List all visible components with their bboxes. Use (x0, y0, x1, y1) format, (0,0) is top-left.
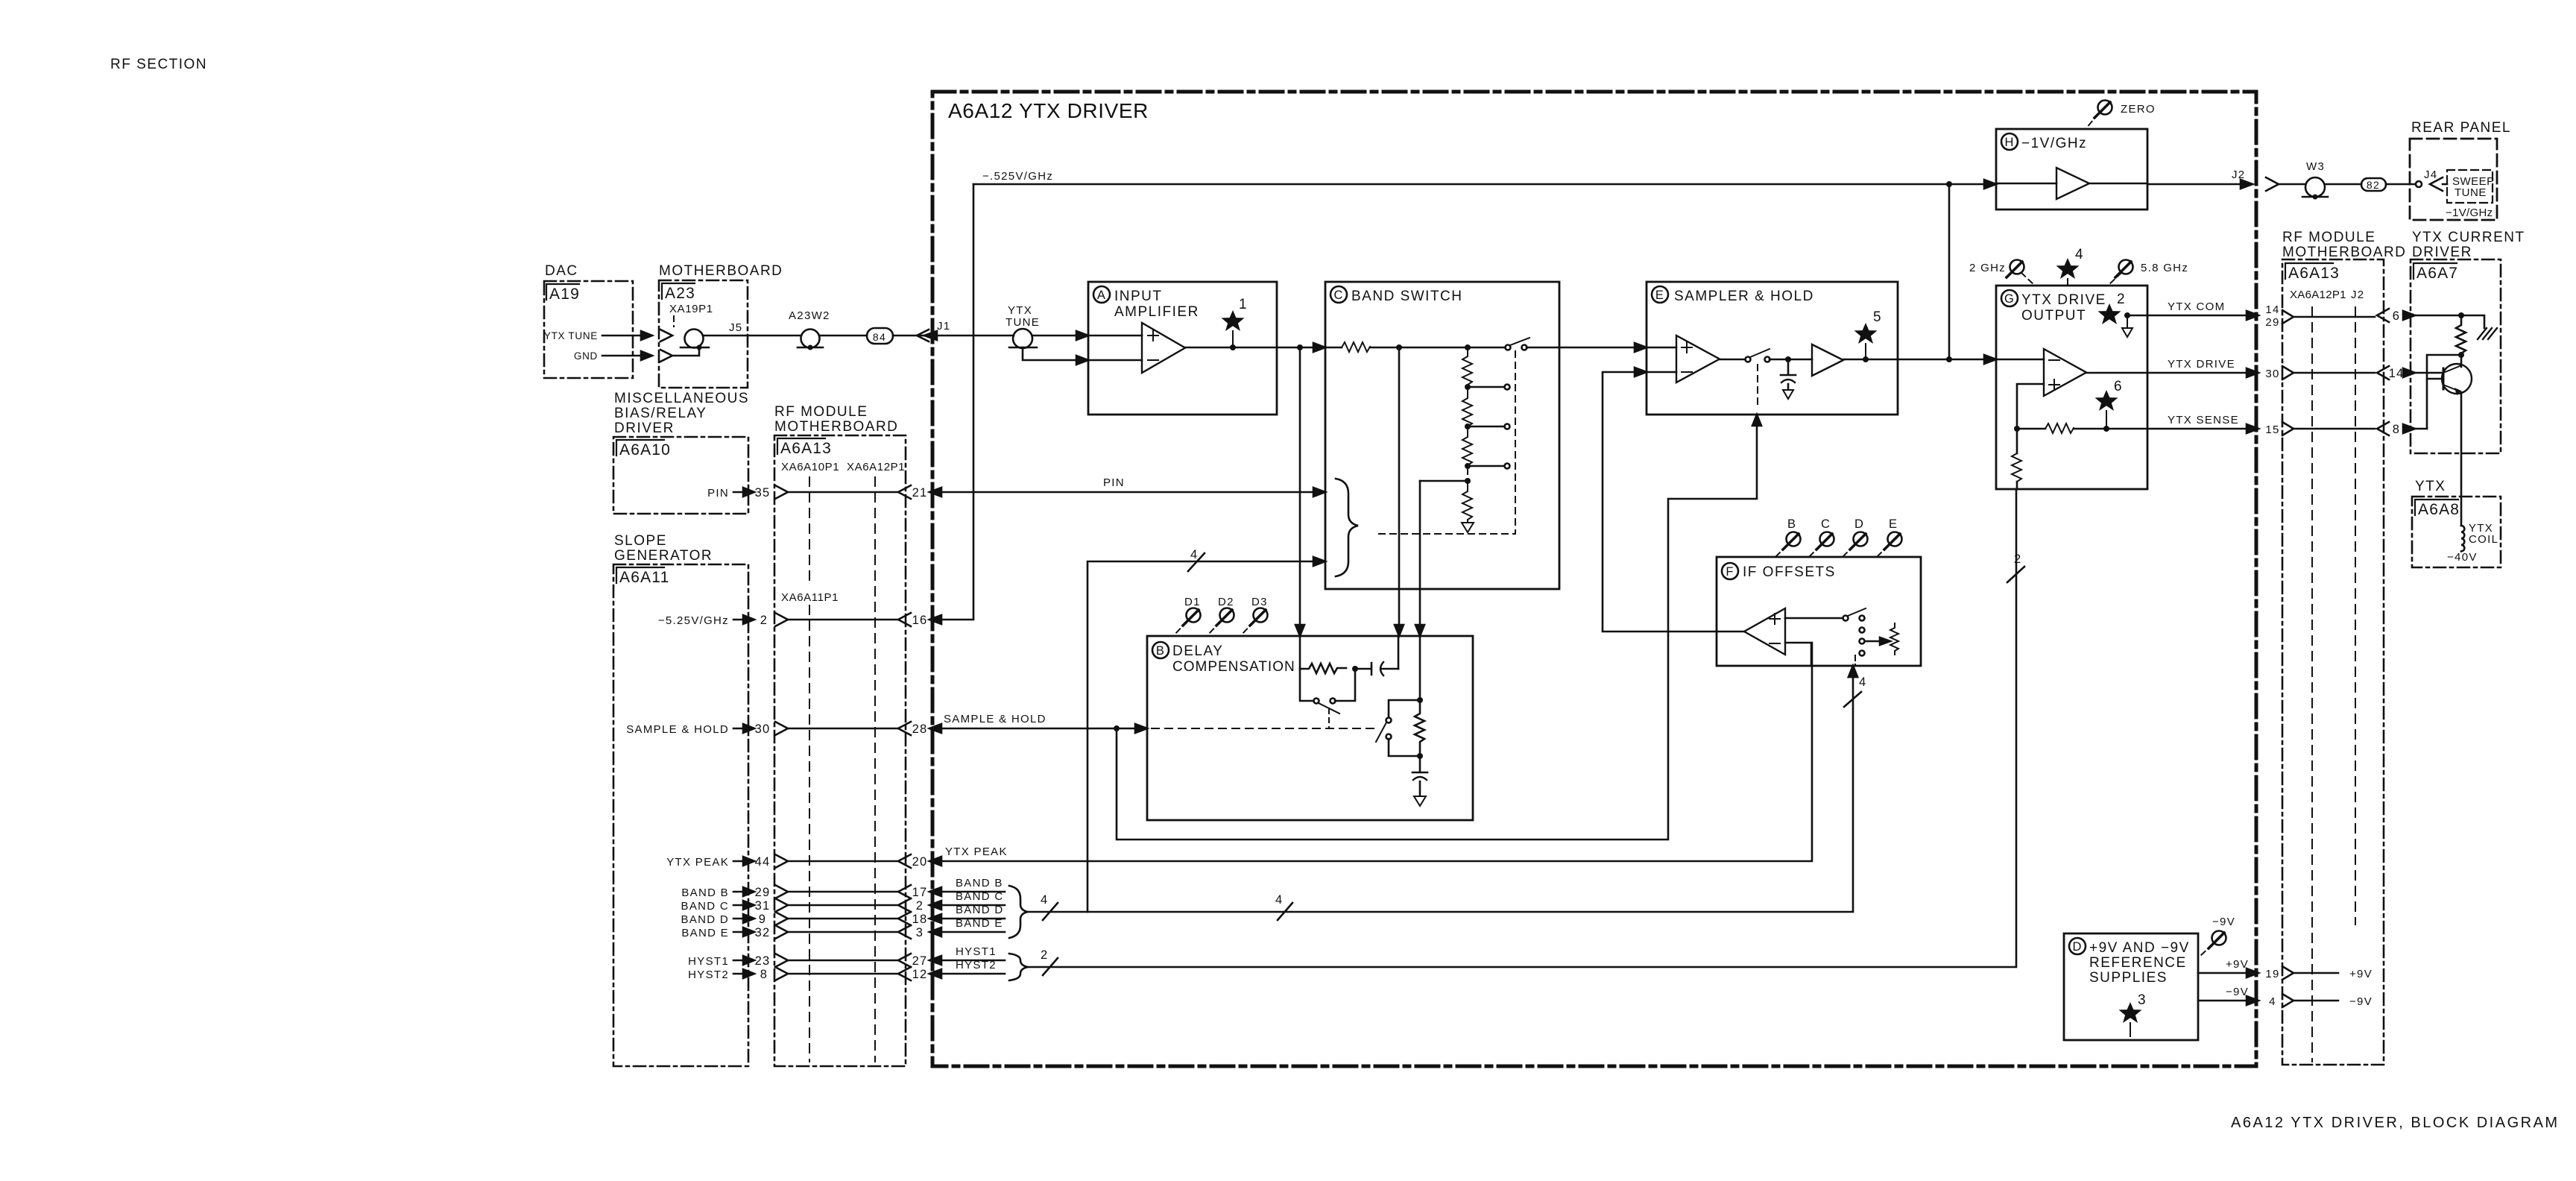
wire PIN to band switch (932, 491, 1319, 494)
wire -9V output (2198, 1000, 2253, 1002)
A6A12 YTX DRIVER outer dashed border (932, 92, 2256, 1066)
hyst bus wire (2) (1028, 489, 2016, 967)
svg-text:3: 3 (2138, 992, 2147, 1008)
svg-text:A6A7: A6A7 (2416, 265, 2458, 282)
svg-text:+9V: +9V (2349, 968, 2373, 980)
wire E output to G input (1898, 359, 1990, 361)
svg-text:YTX: YTX (2415, 479, 2446, 494)
wire +9V output (2198, 972, 2253, 974)
svg-text:A6A13: A6A13 (780, 440, 832, 457)
svg-text:12: 12 (912, 968, 928, 981)
svg-text:4: 4 (1275, 893, 1283, 907)
svg-text:DELAY: DELAY (1172, 643, 1223, 659)
switch S-B1 shunt (1300, 669, 1313, 701)
svg-text:C: C (1333, 289, 1343, 302)
svg-text:COIL: COIL (2469, 533, 2498, 546)
svg-text:YTX COM: YTX COM (2168, 300, 2225, 313)
junction R-C mid node (1352, 666, 1358, 672)
wire to chassis ground (2461, 315, 2484, 328)
svg-text:HYST2: HYST2 (688, 969, 729, 981)
svg-text:D: D (1854, 517, 1864, 531)
svg-text:YTX PEAK: YTX PEAK (666, 856, 729, 869)
svg-text:A6A12 YTX DRIVER, BLOCK DIAGRA: A6A12 YTX DRIVER, BLOCK DIAGRAM (2231, 1115, 2560, 1131)
ground open arrow (hold cap) (1783, 390, 1793, 399)
screw adjust ZERO (2094, 101, 2112, 119)
svg-text:+9V AND −9V: +9V AND −9V (2089, 940, 2190, 956)
ytx current driver A6A7 box (2411, 259, 2501, 453)
svg-text:MOTHERBOARD: MOTHERBOARD (659, 263, 783, 279)
svg-text:DRIVER: DRIVER (614, 421, 675, 436)
svg-text:6: 6 (2393, 309, 2400, 323)
op-amp U-G (2044, 349, 2086, 396)
svg-text:27: 27 (912, 954, 928, 968)
hyst bus brace (1009, 954, 1028, 980)
svg-text:HYST2: HYST2 (956, 959, 997, 971)
wire cap to C riser (1398, 636, 1400, 669)
svg-text:YTX DRIVE: YTX DRIVE (2168, 358, 2235, 371)
svg-text:−5.25V/GHz: −5.25V/GHz (658, 614, 729, 627)
svg-text:MISCELLANEOUS: MISCELLANEOUS (614, 391, 749, 406)
switch S-C1 on main line (1506, 345, 1511, 350)
svg-text:4: 4 (1041, 893, 1048, 907)
svg-text:30: 30 (2265, 368, 2279, 380)
resistor R-C4 (1462, 426, 1472, 474)
svg-text:82: 82 (2367, 179, 2380, 191)
svg-text:A6A10: A6A10 (619, 441, 671, 459)
wire riser band switch to delay compensation (1398, 347, 1401, 630)
resistor R-C1 (1342, 342, 1370, 352)
svg-text:YTX PEAK: YTX PEAK (945, 845, 1008, 858)
wire sense tap from pin 8 (2427, 355, 2461, 429)
svg-text:IF OFFSETS: IF OFFSETS (1743, 564, 1836, 580)
svg-text:18: 18 (912, 913, 928, 926)
star 3 (2119, 1002, 2142, 1023)
node ladder tap 1 (1465, 384, 1471, 390)
svg-text:3: 3 (916, 926, 924, 939)
svg-text:BAND D: BAND D (681, 913, 729, 926)
wire F minus feedback to YTX PEAK (1785, 643, 1811, 666)
svg-text:−1V/GHz: −1V/GHz (2021, 136, 2087, 151)
svg-text:W3: W3 (2306, 160, 2325, 173)
junction ladder top (1465, 344, 1471, 350)
wire YTX DRIVE output (2086, 372, 2253, 374)
svg-text:A6A11: A6A11 (619, 569, 670, 586)
wire S&H branch to sampler switch control (1117, 422, 1757, 840)
svg-text:14: 14 (2265, 303, 2279, 316)
arrow band bus into F (1849, 666, 1857, 677)
svg-text:DAC: DAC (545, 263, 578, 279)
block H -1V/GHz box (1996, 129, 2147, 210)
junction S&H branch (1114, 725, 1120, 731)
connector XA6A12P1 dashed line (left) (874, 477, 876, 1062)
op-amp U-A (1142, 323, 1185, 373)
svg-text:RF MODULE: RF MODULE (774, 404, 868, 420)
svg-text:BAND C: BAND C (956, 890, 1003, 903)
resistor R-A7 (2456, 315, 2466, 353)
junction amp output to delay comp riser (1297, 344, 1303, 350)
svg-text:D: D (2072, 940, 2082, 954)
connector XA6A10P1 dashed line (809, 477, 810, 1062)
junction hold cap node (1785, 356, 1791, 362)
pin chevron into A23 (YTX TUNE) (660, 330, 672, 341)
wire B node from A riser (1299, 636, 1301, 669)
svg-text:5: 5 (1873, 309, 1882, 325)
wire riser A-out to delay compensation (1299, 347, 1301, 630)
svg-text:REAR PANEL: REAR PANEL (2411, 120, 2511, 136)
dashed S&H control inside B (1152, 728, 1377, 729)
svg-text:84: 84 (873, 331, 886, 343)
bus width slash 2 (left) (1043, 958, 1058, 975)
rf module motherboard A6A13 box (left) (774, 435, 906, 1066)
svg-text:GND: GND (574, 350, 598, 362)
svg-text:4: 4 (2269, 995, 2276, 1008)
wire YTX PEAK to IF offsets feedback (932, 643, 1812, 861)
svg-text:J4: J4 (2424, 169, 2437, 181)
connector XA6A12P1 dashed line (right) (2311, 307, 2313, 1062)
bus width slash 4 (left) (1043, 903, 1058, 920)
block D +9V AND -9V REFERENCE SUPPLIES box (2064, 933, 2198, 1040)
svg-text:B: B (1156, 644, 1165, 658)
wire 84 oval to J1 (893, 335, 1014, 337)
svg-text:YTX CURRENT: YTX CURRENT (2412, 230, 2525, 245)
star 5 (1854, 323, 1878, 344)
svg-text:2 GHz: 2 GHz (1969, 262, 2006, 274)
svg-text:−9V: −9V (2226, 986, 2249, 998)
svg-text:16: 16 (912, 614, 928, 627)
svg-text:8: 8 (2393, 423, 2400, 436)
svg-text:5.8 GHz: 5.8 GHz (2141, 262, 2188, 274)
junction delay network top (1417, 697, 1423, 703)
svg-text:2: 2 (1041, 948, 1048, 962)
wire A23W2 to cable 84 (820, 335, 868, 337)
wire H output to J2 (2147, 183, 2253, 186)
connector J4 open circle (2416, 181, 2422, 187)
wire YTX TUNE shield to amp minus input (1023, 347, 1076, 360)
ytx A6A8 box (2412, 497, 2501, 567)
resistor R-C5 (1462, 481, 1472, 529)
wire selector to potentiometer (1865, 640, 1883, 643)
svg-text:SAMPLE & HOLD: SAMPLE & HOLD (626, 723, 729, 736)
svg-text:A23: A23 (665, 285, 695, 302)
transistor Q1 (2442, 364, 2472, 394)
svg-text:BAND SWITCH: BAND SWITCH (1351, 289, 1463, 304)
svg-text:OUTPUT: OUTPUT (2021, 308, 2086, 324)
capacitor C-B1 (1355, 663, 1371, 675)
svg-text:C: C (1821, 517, 1831, 531)
svg-text:−9V: −9V (2349, 995, 2373, 1008)
svg-text:MOTHERBOARD: MOTHERBOARD (774, 419, 898, 435)
wire band switch main line (1325, 347, 1342, 349)
svg-text:BAND B: BAND B (956, 877, 1003, 889)
svg-text:D3: D3 (1251, 596, 1268, 608)
node ladder tap 2 (1465, 423, 1471, 429)
resistor R-G2 feedback (2016, 429, 2018, 453)
capacitor C-E1 hold (1781, 359, 1796, 375)
switch S-F selector (1843, 616, 1849, 621)
svg-text:BIAS/RELAY: BIAS/RELAY (614, 406, 707, 421)
chassis ground hatch (2478, 328, 2497, 339)
svg-text:A6A12 YTX DRIVER: A6A12 YTX DRIVER (948, 99, 1149, 122)
resistor R-B2 (1415, 700, 1424, 754)
wiper dashed control line (1374, 351, 1515, 534)
amp U-H (2056, 168, 2089, 199)
switch S-E1 sample switch (1720, 359, 1745, 361)
junction collector pull node (2458, 312, 2464, 318)
connector J2 chevrons at border (2241, 180, 2253, 189)
junction main line to B riser (1396, 344, 1402, 350)
dashed selector control (1854, 655, 1856, 666)
node ladder to delay comp feed (1465, 478, 1471, 484)
svg-text:GENERATOR: GENERATOR (614, 548, 713, 564)
svg-text:COMPENSATION: COMPENSATION (1172, 659, 1295, 675)
svg-text:44: 44 (755, 855, 771, 869)
svg-text:AMPLIFIER: AMPLIFIER (1114, 304, 1199, 320)
svg-text:28: 28 (912, 722, 928, 736)
svg-text:INPUT: INPUT (1114, 289, 1163, 304)
svg-text:B: B (1787, 517, 1796, 531)
svg-text:A: A (1097, 289, 1106, 302)
svg-text:4: 4 (1190, 548, 1198, 561)
junction YTX COM node (2124, 312, 2130, 318)
svg-text:15: 15 (2265, 423, 2279, 436)
wire SAMPLE & HOLD into delay compensation (932, 728, 1136, 730)
block B DELAY COMPENSATION box (1147, 636, 1473, 820)
svg-text:DRIVER: DRIVER (2412, 245, 2472, 260)
svg-text:MOTHERBOARD: MOTHERBOARD (2282, 245, 2406, 260)
wire 4-band line to band switch brace (1087, 561, 1313, 912)
svg-text:F: F (1726, 565, 1734, 579)
block E SAMPLER & HOLD box (1647, 282, 1898, 415)
ground open arrow (YTX COM) (2127, 315, 2128, 328)
rear panel box (2410, 139, 2497, 220)
DAC A19 box (544, 281, 633, 378)
svg-text:G: G (2004, 292, 2015, 306)
svg-text:+9V: +9V (2226, 958, 2249, 971)
connector XA19P1 circle (685, 330, 704, 348)
svg-text:SAMPLE & HOLD: SAMPLE & HOLD (944, 713, 1046, 725)
svg-text:HYST1: HYST1 (956, 945, 997, 958)
cable number 82 oval (2361, 178, 2386, 191)
ground bar under XA19P1 (681, 347, 709, 349)
star 1 (1222, 310, 1245, 331)
star 2 (2098, 303, 2121, 324)
buffer amp U-E2 (1812, 344, 1843, 376)
resistor R-B1 (1300, 664, 1346, 673)
bus width slash 2 (riser to YTX drive output) (2007, 567, 2024, 582)
bias/relay driver A6A10 box (613, 437, 748, 514)
sweep tune inner dashed box (2447, 170, 2493, 203)
ground open arrow (ladder bottom) (1462, 520, 1474, 532)
wire riser to -1V/GHz input (1948, 184, 1951, 359)
slope generator A6A11 box (613, 564, 748, 1066)
svg-text:D1: D1 (1184, 596, 1201, 608)
svg-text:SLOPE: SLOPE (614, 533, 667, 549)
svg-text:6: 6 (2114, 379, 2123, 394)
svg-text:RF SECTION: RF SECTION (110, 57, 207, 72)
svg-text:21: 21 (912, 486, 928, 500)
junction feed to -1V/GHz (1946, 356, 1952, 362)
svg-text:J2: J2 (2351, 289, 2364, 301)
rf module motherboard A6A13 box (right) (2282, 259, 2384, 1065)
svg-text:BAND E: BAND E (956, 917, 1003, 930)
svg-text:BAND E: BAND E (681, 927, 729, 939)
svg-text:A23W2: A23W2 (789, 309, 830, 322)
block F IF OFFSETS box (1717, 557, 1921, 666)
svg-text:J1: J1 (937, 320, 950, 333)
svg-text:19: 19 (2265, 968, 2279, 980)
svg-text:1: 1 (1239, 297, 1248, 312)
wire F output to E minus feed (1603, 631, 1744, 633)
svg-text:30: 30 (755, 722, 771, 736)
svg-text:XA6A11P1: XA6A11P1 (781, 591, 839, 604)
wire emitter down to YTX coil (2460, 392, 2463, 526)
wire riser ladder to delay compensation (1419, 481, 1421, 630)
ground open arrow (B box) (1414, 796, 1426, 806)
wire E minus input from IF offsets (1603, 372, 1635, 631)
svg-text:2: 2 (2117, 292, 2126, 307)
svg-text:23: 23 (755, 954, 771, 968)
svg-text:A6A13: A6A13 (2288, 265, 2340, 282)
screw adjust 5.8 GHz (2115, 260, 2133, 278)
svg-text:ZERO: ZERO (2121, 103, 2156, 116)
op-amp U-F (points left) (1744, 608, 1785, 655)
bus width slash 4 (riser to IF offsets) (1844, 692, 1861, 707)
wire J2 to W3 (2279, 183, 2305, 186)
wire buffer output (1843, 359, 1898, 361)
resistor R-C3 (1462, 387, 1472, 435)
svg-text:8: 8 (760, 968, 768, 981)
block A INPUT AMPLIFIER box (1088, 282, 1277, 415)
svg-text:−40V: −40V (2447, 551, 2478, 564)
svg-text:9: 9 (759, 913, 766, 926)
wire C-ladder riser inside B (1419, 636, 1421, 697)
cable number 84 oval (867, 328, 893, 344)
svg-text:YTX SENSE: YTX SENSE (2168, 414, 2239, 426)
svg-text:A19: A19 (549, 286, 580, 303)
svg-text:YTX TUNE: YTX TUNE (544, 330, 598, 341)
svg-text:E: E (1655, 289, 1664, 302)
svg-text:2: 2 (916, 899, 924, 913)
svg-text:SAMPLER & HOLD: SAMPLER & HOLD (1674, 289, 1814, 304)
svg-text:E: E (1889, 517, 1898, 531)
svg-text:J5: J5 (729, 321, 742, 334)
motherboard A23 box (659, 280, 748, 388)
wire amp output (1185, 347, 1325, 349)
svg-text:29: 29 (2265, 316, 2279, 329)
potentiometer R-F1 (1890, 623, 1898, 655)
svg-text:YTX DRIVE: YTX DRIVE (2021, 292, 2106, 308)
svg-text:TUNE: TUNE (2455, 186, 2487, 199)
svg-text:TUNE: TUNE (1006, 316, 1040, 329)
block C BAND SWITCH box (1325, 282, 1559, 589)
svg-text:20: 20 (912, 855, 928, 869)
switch S-B2 (1389, 700, 1420, 717)
svg-text:YTX: YTX (1008, 304, 1032, 317)
star 4 (2056, 258, 2080, 279)
capacitor C-B2 (1412, 756, 1427, 772)
wire -5.25V/GHz to corner and up to top line (932, 184, 973, 620)
svg-text:14: 14 (2389, 367, 2405, 380)
wire 82 to J4 (2386, 183, 2415, 186)
svg-text:2: 2 (760, 614, 768, 627)
junction delay network bottom (1417, 753, 1423, 759)
wire YTX TUNE to input amplifier (1032, 335, 1076, 337)
svg-text:XA6A12P1: XA6A12P1 (847, 461, 905, 473)
svg-text:−.525V/GHz: −.525V/GHz (982, 170, 1053, 183)
inductor YTX COIL (2461, 526, 2464, 551)
dashed switch control (1757, 365, 1758, 409)
svg-text:35: 35 (755, 486, 771, 500)
band bus brace (1009, 886, 1028, 938)
star 6 (2095, 390, 2118, 411)
resistor R-G1 (2045, 423, 2074, 433)
svg-text:PIN: PIN (707, 487, 729, 500)
svg-text:XA6A12P1: XA6A12P1 (2290, 289, 2346, 301)
svg-text:RF MODULE: RF MODULE (2282, 230, 2375, 245)
svg-text:SUPPLIES: SUPPLIES (2089, 970, 2168, 986)
svg-text:A6A8: A6A8 (2418, 501, 2460, 518)
svg-text:4: 4 (2075, 247, 2084, 262)
chevron into rear panel (2430, 177, 2443, 191)
bus width slash 4 (band switch feed) (1188, 553, 1205, 571)
resistor ladder R-C2 (1462, 347, 1472, 394)
wire G plus input from sense (2017, 384, 2044, 429)
junction sense tap (2458, 352, 2464, 358)
svg-text:J2: J2 (2232, 169, 2245, 181)
wire -.525V/GHz top line to H input junction (973, 183, 1949, 186)
svg-text:32: 32 (755, 926, 771, 939)
svg-text:D2: D2 (1218, 596, 1234, 608)
block G YTX DRIVE OUTPUT box (1996, 286, 2147, 489)
wire W3 to cable 82 (2325, 183, 2361, 186)
svg-text:BAND C: BAND C (681, 900, 729, 913)
wire J5: A23 connector to A23W2 (704, 335, 801, 337)
svg-text:BAND D: BAND D (956, 904, 1003, 916)
connector J2 dashed line (right) (2355, 307, 2356, 925)
svg-text:REFERENCE: REFERENCE (2089, 955, 2187, 971)
svg-text:−9V: −9V (2212, 916, 2235, 928)
op-amp U-E (1676, 336, 1720, 382)
pin chevron into A23 (GND) (660, 350, 672, 362)
svg-text:HYST1: HYST1 (688, 955, 729, 968)
wire YTX COM (2127, 315, 2253, 317)
node ladder tap 3 (1465, 463, 1471, 469)
svg-text:H: H (2004, 136, 2014, 149)
svg-text:2: 2 (2014, 552, 2021, 566)
svg-text:4: 4 (1859, 675, 1866, 689)
wire F plus input to selector (1785, 617, 1843, 620)
svg-text:XA6A10P1: XA6A10P1 (781, 461, 839, 473)
svg-text:XA19P1: XA19P1 (669, 303, 713, 315)
svg-text:PIN: PIN (1103, 476, 1125, 489)
svg-text:−1V/GHz: −1V/GHz (2446, 207, 2493, 219)
svg-text:17: 17 (912, 886, 928, 899)
wire GND step to shield bar (672, 347, 699, 356)
band bus wire (4) (1028, 671, 1853, 912)
junction sense node (2014, 426, 2020, 432)
svg-text:29: 29 (755, 886, 771, 899)
svg-text:BAND B: BAND B (681, 886, 729, 899)
brace band select (1336, 479, 1358, 576)
wire YTX SENSE (2017, 428, 2045, 430)
svg-text:31: 31 (755, 899, 771, 913)
bus width slash 4 (middle) (1278, 903, 1292, 920)
